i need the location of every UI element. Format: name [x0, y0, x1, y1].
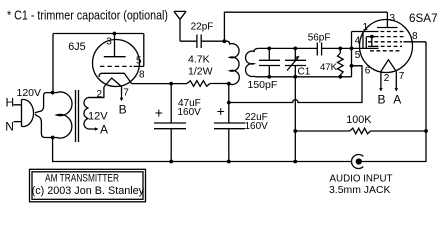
svg-text:+: + [155, 105, 163, 121]
svg-text:160V: 160V [178, 107, 202, 118]
svg-text:+: + [217, 103, 225, 119]
svg-text:7: 7 [399, 71, 405, 82]
svg-text:B: B [378, 93, 386, 107]
svg-text:C1: C1 [298, 67, 311, 78]
svg-text:2: 2 [384, 73, 390, 84]
svg-text:6J5: 6J5 [68, 41, 85, 53]
svg-text:160V: 160V [245, 121, 269, 132]
svg-text:B: B [119, 103, 127, 117]
svg-text:3.5mm JACK: 3.5mm JACK [329, 184, 391, 196]
svg-text:56pF: 56pF [308, 32, 331, 43]
svg-text:H: H [6, 96, 15, 110]
svg-text:3: 3 [390, 13, 396, 24]
svg-text:6SA7: 6SA7 [409, 12, 438, 25]
svg-text:2: 2 [97, 89, 103, 100]
svg-text:4: 4 [355, 35, 361, 46]
svg-text:4.7K: 4.7K [188, 54, 210, 66]
svg-text:1: 1 [363, 22, 369, 33]
svg-text:AUDIO INPUT: AUDIO INPUT [330, 173, 394, 185]
svg-text:5: 5 [355, 50, 361, 61]
svg-text:(c) 2003 Jon B. Stanley: (c) 2003 Jon B. Stanley [32, 185, 145, 197]
svg-text:AM TRANSMITTER: AM TRANSMITTER [45, 172, 119, 184]
svg-text:12V: 12V [88, 110, 108, 122]
svg-text:6: 6 [365, 66, 371, 77]
svg-text:150pF: 150pF [248, 79, 278, 91]
svg-text:7: 7 [123, 88, 129, 99]
svg-text:A: A [100, 123, 108, 137]
svg-text:8: 8 [412, 31, 418, 42]
svg-text:1/2W: 1/2W [188, 66, 213, 78]
svg-text:120V: 120V [17, 87, 42, 99]
svg-text:N: N [5, 120, 14, 134]
svg-text:100K: 100K [346, 114, 372, 126]
svg-text:8: 8 [139, 70, 145, 81]
svg-text:* C1 - trimmer capacitor (opti: * C1 - trimmer capacitor (optional) [7, 8, 168, 23]
svg-text:5: 5 [136, 56, 142, 67]
svg-text:22pF: 22pF [191, 21, 214, 32]
svg-text:3: 3 [106, 37, 112, 48]
svg-text:A: A [393, 93, 401, 107]
svg-text:47K: 47K [320, 62, 338, 73]
